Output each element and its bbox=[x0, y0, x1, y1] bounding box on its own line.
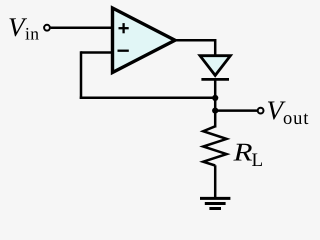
node output junction bbox=[212, 108, 218, 114]
terminal Vout bbox=[258, 108, 264, 114]
diode cathode bar bbox=[201, 78, 229, 81]
wire Vin to op-amp noninverting input bbox=[51, 26, 114, 29]
wire node to Vout terminal bbox=[215, 109, 257, 112]
wire op-amp output bbox=[173, 40, 215, 57]
label Vin bbox=[9, 18, 38, 39]
wire feedback vertical segment bbox=[80, 51, 83, 99]
label RL bbox=[233, 144, 262, 166]
terminal Vin bbox=[44, 25, 50, 31]
wire feedback horizontal segment bbox=[80, 96, 215, 99]
wire diode cathode to resistor bbox=[214, 79, 217, 127]
diode D1 bbox=[200, 56, 230, 80]
wire resistor to ground bbox=[214, 165, 217, 197]
op-amp minus sign (inverting input) bbox=[118, 50, 129, 52]
op-amp U1 bbox=[113, 8, 176, 73]
wire inverting input bbox=[81, 51, 114, 54]
resistor RL bbox=[203, 126, 226, 165]
op-amp plus sign (noninverting input) bbox=[119, 23, 129, 33]
node feedback junction bbox=[212, 95, 218, 101]
ground bbox=[200, 198, 230, 208]
label Vout bbox=[268, 102, 308, 125]
